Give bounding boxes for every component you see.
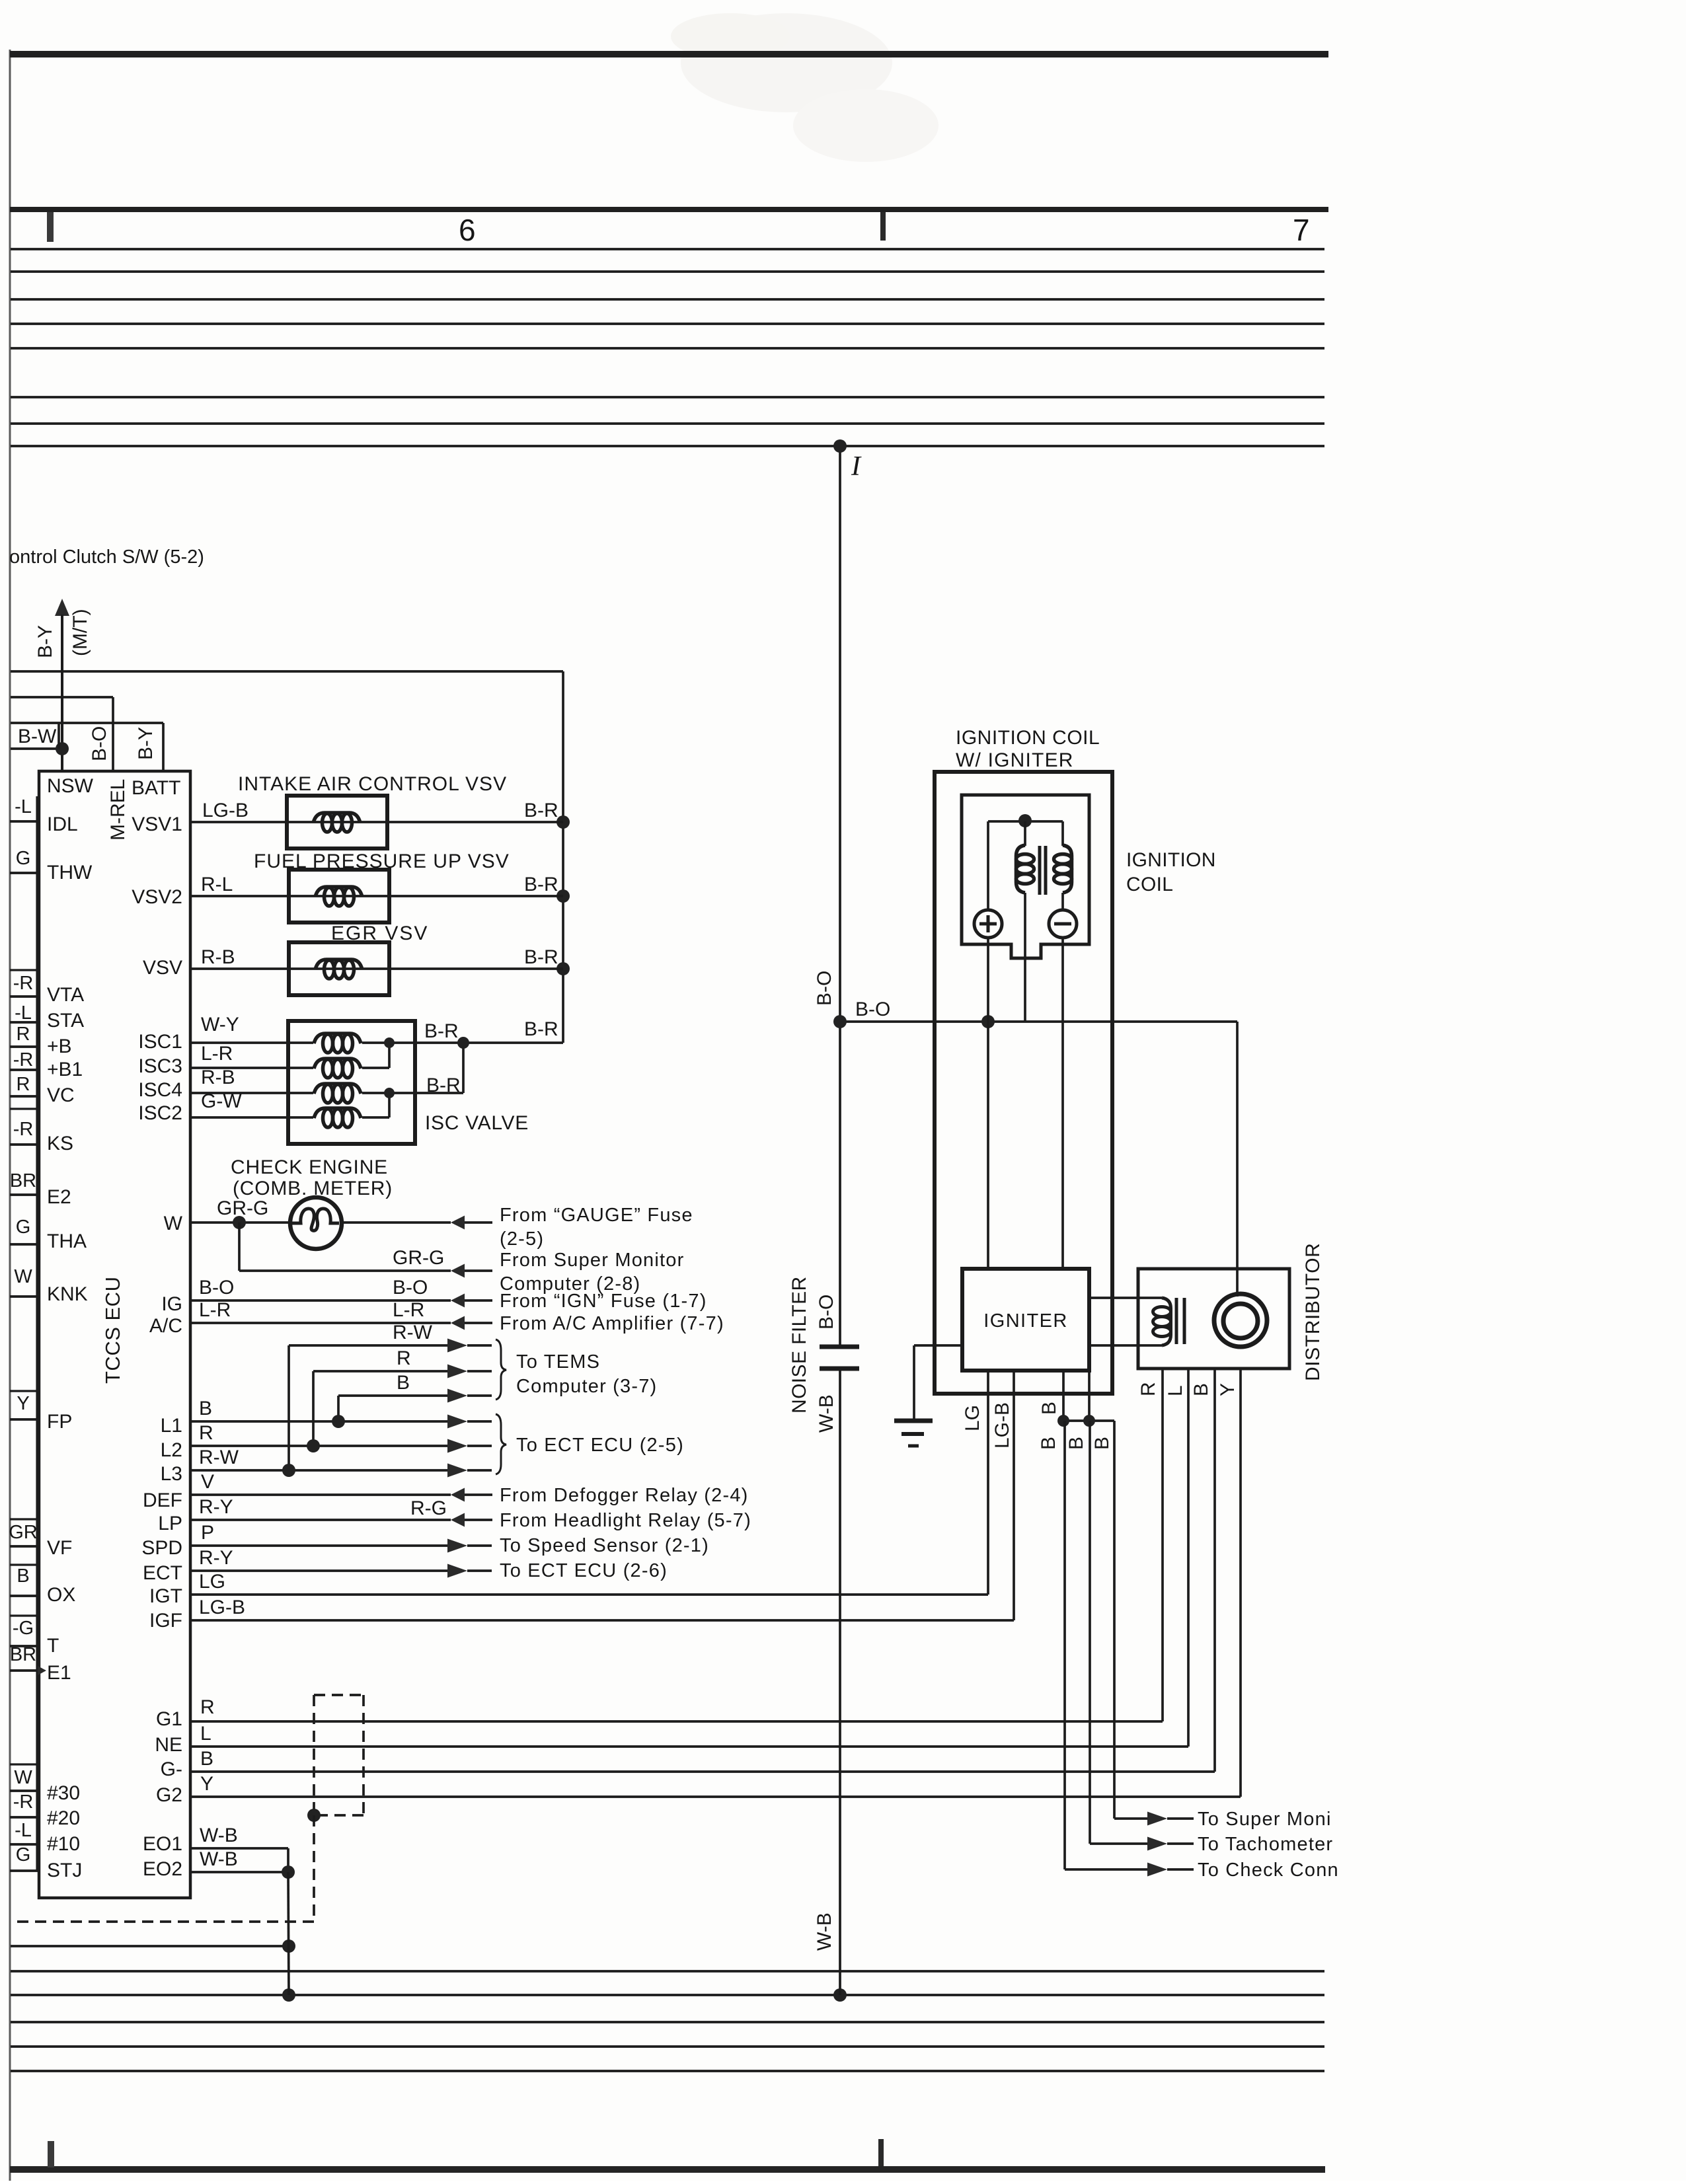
arrow to super monitor [1147,1812,1167,1826]
svg-text:R-B: R-B [201,1067,235,1088]
svg-text:B-R: B-R [524,1018,558,1040]
svg-text:R: R [397,1347,411,1369]
svg-text:ISC3: ISC3 [138,1055,182,1077]
wire L1 row [190,1420,447,1423]
fuel pressure up VSV2 box [289,870,389,923]
svg-text:E2: E2 [47,1186,71,1208]
svg-text:B: B [1065,1437,1087,1450]
coil intake air control VSV1 [313,813,360,823]
wire W-B below filter down to bus [839,1369,841,1995]
wire primary bottom through notch [1024,893,1026,1022]
ladder separator 21 [10,1669,39,1671]
svg-text:STA: STA [47,1010,84,1032]
ladder separator 7 [10,1095,39,1097]
svg-text:LP: LP [158,1513,182,1534]
wire LG rise to igniter [987,1371,989,1595]
svg-text:W-B: W-B [816,1394,837,1433]
node ISC1 jog [457,1037,469,1049]
ladder separator 19 [10,1614,39,1616]
svg-text:LG: LG [199,1571,225,1593]
wire A/C row [190,1322,451,1324]
brace ECT [496,1414,506,1474]
wire common to + terminal [987,821,989,910]
svg-text:IG: IG [161,1293,182,1315]
wire L3 row [190,1469,447,1472]
svg-text:B: B [1190,1383,1212,1396]
B-W label box right edge [57,723,60,749]
wire R-W TEMS row [289,1344,447,1347]
bus wire B5 [11,2070,1324,2072]
distributor cap outer ring [1214,1294,1267,1347]
svg-text:(M/T): (M/T) [69,609,91,656]
svg-text:GR-G: GR-G [393,1247,444,1269]
svg-text:To ECT ECU (2-6): To ECT ECU (2-6) [500,1560,668,1581]
ladder separator 26 [10,1869,39,1871]
wire NSW to clutch switch with arrowhead [55,599,69,616]
svg-text:I: I [851,451,862,482]
ladder separator 8 [10,1108,39,1110]
distributor box [1138,1269,1289,1369]
svg-text:L2: L2 [161,1439,182,1461]
svg-text:R: R [1137,1382,1159,1396]
ladder separator 25 [10,1843,39,1845]
svg-text:To Super Moni: To Super Moni [1198,1809,1332,1830]
arrow to speed sensor [447,1539,467,1553]
svg-text:OX: OX [47,1584,75,1606]
svg-text:B: B [1038,1402,1060,1415]
svg-text:From A/C Amplifier (7-7): From A/C Amplifier (7-7) [500,1313,724,1334]
wire into pin STJ [10,1869,39,1872]
wire G1 row [190,1720,1163,1723]
svg-text:NE: NE [155,1734,182,1756]
ignition coil w/ igniter outer box [935,772,1112,1394]
wire Y drop from distributor [1239,1369,1242,1797]
wire super monitor row [239,1269,451,1272]
svg-text:B-R: B-R [524,874,558,895]
svg-text:Y: Y [17,1393,29,1414]
wire into pin +B1 [10,1069,39,1071]
svg-text:G-W: G-W [201,1090,242,1112]
top rule (thin heavy) [10,51,1328,57]
arrow to check connector [1147,1863,1167,1877]
svg-text:VC: VC [47,1084,75,1106]
svg-text:G: G [16,1217,31,1238]
wire ISC4 to jog [362,1092,463,1094]
ladder separator 12 [10,1295,39,1297]
wire into pin STA [10,1021,39,1024]
svg-text:-R: -R [13,1791,34,1813]
wire main B-R feed top [11,670,563,673]
wire through intake air control VSV1 [287,821,563,823]
wire primary top [1024,821,1026,846]
node R join L2 [307,1439,320,1452]
svg-text:To Tachometer: To Tachometer [1198,1834,1333,1855]
wire fuel pressure up VSV2 from ECU [190,895,289,897]
ladder separator 14 [10,1418,39,1420]
shield dashed box left side [313,1695,315,1815]
wire EGR VSV from ECU [190,967,289,970]
svg-text:NSW: NSW [47,775,94,797]
svg-text:B-O: B-O [855,998,890,1020]
svg-text:P: P [201,1522,214,1544]
svg-text:Y: Y [1217,1383,1239,1396]
wire ISC1-ISC3 link vertical [388,1043,391,1068]
svg-text:IDL: IDL [47,813,78,835]
svg-text:SPD: SPD [141,1537,182,1559]
wire through fuel pressure up VSV2 [289,895,563,897]
arrowhead on E1 wire [38,1666,46,1675]
svg-text:CHECK ENGINE: CHECK ENGINE [231,1156,388,1178]
svg-text:IGNITION: IGNITION [1126,849,1216,871]
wire IGT row (LG) [190,1593,988,1596]
svg-text:6: 6 [459,213,476,247]
svg-text:B: B [17,1565,29,1587]
wire GR-G drop [238,1223,241,1271]
svg-text:M-REL: M-REL [107,779,129,841]
svg-text:DEF: DEF [143,1489,182,1511]
svg-text:-L: -L [15,796,32,817]
svg-text:IGF: IGF [149,1610,182,1632]
wire lamp to arrow [342,1221,451,1224]
wire into pin VTA [10,995,39,998]
node shield junction [307,1809,321,1822]
svg-text:IGNITION COIL: IGNITION COIL [956,727,1100,749]
wire into pin VC [10,1095,39,1098]
svg-text:R-W: R-W [393,1322,433,1343]
wire R-W drop to L3 [287,1345,290,1470]
svg-text:To ECT ECU (2-5): To ECT ECU (2-5) [516,1435,684,1456]
svg-text:ECT: ECT [143,1562,182,1584]
lamp filament [291,1209,339,1230]
pickup coil winding [1162,1298,1171,1345]
bus wire T4 [11,322,1324,325]
ladder separator 4 [10,1021,39,1023]
node B-O at coil + feed [981,1015,995,1028]
svg-text:R: R [200,1696,215,1718]
node B-O at I bus [833,1015,847,1028]
header tick left [47,212,54,242]
node B-R EGR VSV [556,962,570,975]
wire intake air control VSV1 from ECU [190,821,287,823]
svg-text:B: B [1091,1437,1113,1450]
svg-text:R-L: R-L [201,874,233,895]
wire into pin +B [10,1045,39,1048]
ground bar 3 [908,1445,919,1448]
header rule [10,207,1328,212]
node EO ground on ground link [282,1939,295,1953]
noise filter capacitor bottom plate [820,1367,859,1371]
svg-text:B-O: B-O [199,1277,234,1299]
left page border [9,50,11,2181]
coil ISC3 [314,1059,361,1069]
bus wire B1 [11,1970,1324,1973]
svg-text:ISC VALVE: ISC VALVE [425,1112,529,1134]
wire ISC3 link [362,1067,389,1069]
wire into pin #30 [10,1789,39,1792]
svg-text:B-O: B-O [393,1277,428,1299]
wire into pin #20 [10,1816,39,1819]
svg-text:-L: -L [15,1820,32,1841]
shield dashed box top [314,1694,364,1696]
wire + terminal down to igniter [987,938,989,1269]
svg-text:B: B [199,1398,212,1419]
wire B-W to NSW node [11,747,62,750]
wire secondary top [1061,821,1064,846]
svg-text:R-Y: R-Y [199,1496,233,1518]
svg-text:B-R: B-R [524,800,558,821]
arrow from super monitor [451,1264,465,1278]
node B link 1 [1057,1415,1069,1427]
ladder separator 5 [10,1045,39,1047]
ladder separator 24 [10,1816,39,1818]
wire into pin KNK [10,1295,39,1298]
node ISC4 link [384,1088,395,1098]
ladder separator 15 [10,1518,39,1520]
ladder separator 2 [10,969,39,971]
wire LG-B rise to igniter [1013,1371,1015,1620]
svg-text:R: R [199,1422,213,1444]
svg-text:R-Y: R-Y [199,1547,233,1569]
svg-text:R-G: R-G [410,1497,447,1519]
svg-text:R: R [17,1074,30,1095]
shield drain dashed vertical [313,1815,315,1922]
wire L2 row [190,1445,447,1447]
svg-text:R: R [17,1024,30,1045]
pickup core bars [1175,1298,1178,1344]
svg-text:FP: FP [47,1411,72,1433]
coil ISC1 [314,1034,361,1043]
wire G- row [190,1770,1215,1773]
wire G2 row [190,1795,1241,1798]
svg-text:From Headlight Relay (5-7): From Headlight Relay (5-7) [500,1510,751,1531]
coil ISC4 [314,1084,361,1094]
svg-text:V: V [201,1471,214,1493]
wire to super monitor [1114,1817,1147,1820]
ladder separator 3 [10,995,39,997]
wire IG row [190,1299,451,1302]
svg-text:G2: G2 [156,1784,182,1806]
wire into pin E1 [10,1669,39,1672]
wire secondary lead down to distributor cap [1236,1022,1239,1297]
arrow from headlight relay [451,1513,465,1527]
wire igniter B out [1062,1371,1065,1421]
wire ISC2 link [362,1116,389,1119]
wire into pin THW [10,872,39,874]
node B-W/NSW junction [56,742,69,755]
svg-text:+B: +B [47,1036,72,1057]
svg-text:To Check Conn: To Check Conn [1198,1860,1339,1881]
coil + terminal [974,910,1002,938]
bus wire T7 [11,422,1324,425]
wire EO1 drop [287,1848,289,1872]
svg-text:From Defogger Relay (2-4): From Defogger Relay (2-4) [500,1485,749,1506]
wire EO1 row [190,1847,288,1850]
svg-text:KS: KS [47,1133,73,1154]
wire ISC1 to B-R bus [362,1041,563,1044]
wire B drop from distributor [1213,1369,1216,1772]
coil secondary winding [1063,845,1072,893]
svg-text:LG: LG [962,1405,983,1431]
arrow to TEMS 1 [447,1339,467,1353]
wire R drop to L2 [312,1371,315,1446]
ladder separator 6 [10,1069,39,1071]
svg-text:-G: -G [13,1618,34,1639]
wire B-Y to BATT [11,722,163,724]
wire R TEMS row [313,1370,447,1373]
ladder separator 11 [10,1243,39,1245]
svg-text:G: G [16,848,31,869]
svg-text:LG-B: LG-B [199,1597,245,1618]
node coil common [1018,814,1032,827]
ladder separator 18 [10,1595,39,1597]
svg-text:COIL: COIL [1126,874,1173,895]
wire secondary to - terminal [1061,893,1064,910]
EGR VSV box [289,942,389,995]
wire ECT row [190,1569,447,1572]
svg-text:THA: THA [47,1230,87,1252]
wire B link row [1063,1419,1114,1422]
svg-text:T: T [47,1635,59,1657]
bus wire T5 [11,347,1324,350]
intake air control VSV1 box [287,796,387,848]
svg-text:VSV: VSV [143,957,182,979]
coil fuel pressure up VSV2 [315,887,362,897]
wire into pin IDL [10,820,39,823]
wire into pin VF [10,1545,39,1548]
ladder separator 17 [10,1563,39,1565]
svg-text:W-B: W-B [814,1912,835,1951]
arrow from defogger relay [451,1488,465,1502]
bottom rule [10,2166,1325,2173]
svg-text:G: G [16,1844,31,1865]
shield dashed box right side [362,1695,365,1815]
wire into pin #10 [10,1843,39,1846]
bus wire B3 [11,2021,1324,2023]
svg-text:ISC1: ISC1 [138,1031,182,1053]
svg-text:ISC2: ISC2 [138,1102,182,1124]
wire into pin T [10,1645,39,1647]
svg-text:W-B: W-B [200,1825,238,1846]
ground bar 2 [901,1432,924,1436]
bus wire T1 [11,248,1324,250]
svg-text:-R: -R [13,1119,34,1140]
coil EGR VSV [315,960,362,969]
wire B-O branch to ignition coil and distributor [840,1020,1237,1023]
svg-text:To Speed Sensor (2-1): To Speed Sensor (2-1) [500,1535,709,1556]
svg-text:IGNITER: IGNITER [983,1310,1067,1332]
node EO ground on B2 [282,1988,295,2002]
svg-text:L3: L3 [161,1463,182,1485]
svg-text:W: W [164,1213,183,1234]
wire B-O to M-REL [11,696,113,698]
arrow to ECT 3 [447,1464,467,1478]
coil - terminal [1049,910,1077,938]
wire igniter to pickup bottom [1089,1344,1162,1347]
node GR-G branch [233,1216,246,1229]
svg-text:G-: G- [161,1758,182,1780]
wire IGF row (LG-B) [190,1619,1014,1622]
brace TEMS [496,1339,506,1400]
arrow from GAUGE fuse [451,1216,465,1230]
wire to check connector [1065,1868,1147,1871]
svg-text:ISC4: ISC4 [138,1079,182,1101]
wire B3 down to super monitor row [1113,1421,1116,1819]
svg-text:EO2: EO2 [143,1858,182,1880]
svg-text:VF: VF [47,1537,72,1559]
bus wire B4 [11,2045,1324,2048]
svg-text:B: B [1038,1437,1059,1450]
wire ISC3 from ECU [190,1067,313,1069]
left connector ladder wall [36,796,38,1871]
svg-text:#30: #30 [47,1782,80,1804]
node B link 2 [1083,1415,1095,1427]
svg-text:-R: -R [13,1049,34,1071]
wire igniter ground lead [914,1344,962,1347]
wire into pin KS [10,1143,39,1146]
svg-text:To TEMS: To TEMS [516,1351,600,1373]
svg-text:R-W: R-W [199,1447,239,1468]
ISC valve box [288,1021,415,1144]
svg-text:B: B [200,1748,213,1770]
wire coil common top [988,820,1063,823]
wire bus I vertical (B-O/W-B feed) [839,446,841,1347]
wire into pin FP [10,1418,39,1421]
svg-text:INTAKE AIR CONTROL VSV: INTAKE AIR CONTROL VSV [238,773,507,795]
bus wire T8 [11,445,1324,447]
wire ISC1 from ECU [190,1041,313,1044]
svg-text:NOISE FILTER: NOISE FILTER [788,1276,810,1413]
bus wire T3 [11,298,1324,301]
coil ISC2 [314,1108,361,1118]
svg-text:B-O: B-O [814,971,835,1006]
wire ISC1-ISC4 jog vertical [462,1043,465,1093]
wire ground link (EO1/EO2 to left) [11,1945,289,1947]
wire EO2 row [190,1871,288,1873]
ladder separator 1 [10,872,39,874]
svg-text:B-R: B-R [426,1074,461,1096]
svg-text:R-B: R-B [201,946,235,968]
node B-R VSV1 [556,815,570,829]
node ISC1 link [384,1037,395,1048]
svg-text:B-Y: B-Y [34,625,56,658]
wire W row to lamp [190,1221,289,1224]
svg-text:L-R: L-R [393,1299,424,1321]
svg-text:(2-5): (2-5) [500,1228,544,1250]
arrow to ECT 1 [447,1415,467,1429]
node B join L1 [332,1415,345,1428]
svg-text:LG-B: LG-B [202,800,249,821]
svg-text:From “GAUGE” Fuse: From “GAUGE” Fuse [500,1205,693,1226]
svg-text:KNK: KNK [47,1283,88,1305]
ladder separator 23 [10,1789,39,1791]
noise filter capacitor top plate [820,1345,859,1349]
wire into pin THA [10,1243,39,1246]
svg-text:W-B: W-B [200,1848,238,1870]
svg-text:B-R: B-R [524,946,558,968]
node EO join [282,1865,295,1879]
wire ISC2 from ECU [190,1116,313,1119]
svg-text:GR: GR [9,1522,38,1543]
bus wire T6 [11,396,1324,398]
svg-text:W-Y: W-Y [201,1014,239,1036]
svg-text:DISTRIBUTOR: DISTRIBUTOR [1302,1243,1324,1381]
svg-text:B-O: B-O [89,726,110,761]
bus wire B2 [11,1994,1324,1996]
ladder separator 9 [10,1143,39,1145]
svg-text:GR-G: GR-G [217,1197,268,1219]
svg-text:#20: #20 [47,1807,80,1829]
svg-text:W: W [14,1266,32,1287]
